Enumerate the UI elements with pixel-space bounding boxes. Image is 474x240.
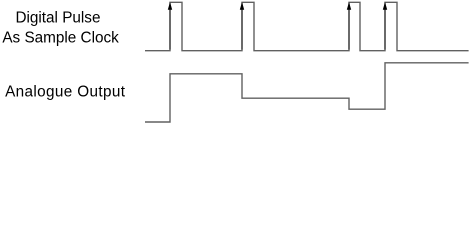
arrow on pulse 1 rising edge — [168, 2, 172, 50]
arrow on pulse 4 rising edge — [383, 2, 387, 50]
arrow on pulse 2 rising edge — [240, 2, 244, 50]
svg-text:As Sample Clock: As Sample Clock — [2, 29, 119, 46]
svg-text:Analogue Output: Analogue Output — [5, 84, 126, 101]
arrow on pulse 3 rising edge — [347, 2, 351, 50]
wire: digital pulse train waveform — [145, 2, 469, 50]
svg-text:Digital Pulse: Digital Pulse — [15, 10, 100, 27]
wire: analogue output staircase waveform — [145, 63, 469, 122]
